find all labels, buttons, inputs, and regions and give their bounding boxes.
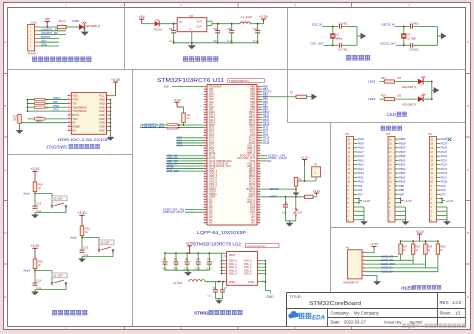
svg-text:Drawn By:: Drawn By:: [384, 320, 402, 325]
svg-text:JTDI: JTDI: [53, 101, 59, 104]
svg-text:CN1: CN1: [31, 21, 37, 25]
svg-text:+3.3V: +3.3V: [404, 199, 412, 203]
svg-text:NC: NC: [209, 221, 213, 224]
svg-text:P3: P3: [387, 132, 391, 136]
svg-text:OSC32_OUT: OSC32_OUT: [380, 42, 396, 46]
svg-text:LED2: LED2: [368, 97, 375, 101]
svg-text:C15: C15: [37, 203, 42, 206]
svg-text:10uH: 10uH: [246, 16, 252, 19]
svg-text:X2: X2: [407, 32, 411, 36]
svg-text:E: E: [467, 295, 469, 299]
svg-text:1.0.0: 1.0.0: [452, 300, 462, 305]
svg-text:LQFP-64_10X10X5P: LQFP-64_10X10X5P: [197, 230, 246, 235]
svg-text:Key1: Key1: [24, 191, 31, 195]
svg-text:PA15: PA15: [358, 158, 365, 162]
svg-text:PA14: PA14: [358, 163, 365, 167]
svg-text:PC11: PC11: [441, 175, 448, 179]
svg-text:PC12: PC12: [263, 142, 270, 145]
svg-text:IN: IN: [179, 20, 182, 24]
svg-text:C8: C8: [163, 257, 167, 261]
svg-text:+3.3V: +3.3V: [173, 98, 181, 102]
svg-text:Key2: Key2: [71, 235, 78, 239]
svg-text:PB9: PB9: [399, 184, 404, 188]
svg-text:VDDA: VDDA: [229, 281, 236, 284]
svg-text:+3.3V: +3.3V: [78, 211, 88, 215]
svg-text:+3.3V: +3.3V: [31, 167, 41, 171]
svg-text:TCK/SWCLK: TCK/SWCLK: [72, 110, 87, 113]
svg-text:STM32F103RCT6 U11: STM32F103RCT6 U11: [157, 78, 224, 84]
svg-text:+3.3V: +3.3V: [301, 155, 309, 159]
svg-text:1/1: 1/1: [455, 311, 461, 316]
svg-text:PB16: PB16: [399, 154, 406, 158]
svg-text:100: 100: [397, 77, 402, 80]
svg-text:PB14: PB14: [399, 163, 406, 167]
svg-text:PB10: PB10: [399, 180, 406, 184]
svg-text:+5V: +5V: [44, 17, 51, 21]
svg-text:C14: C14: [37, 280, 42, 283]
svg-text:C6: C6: [174, 257, 178, 261]
svg-text:OLED_DC: OLED_DC: [381, 258, 393, 262]
svg-text:Sheet:: Sheet:: [440, 311, 452, 316]
svg-text:R13: R13: [13, 117, 18, 119]
svg-text:JRST: JRST: [36, 120, 43, 123]
svg-text:PC3: PC3: [177, 144, 182, 147]
svg-text:JTMS: JTMS: [53, 105, 60, 108]
svg-text:K2-1187: K2-1187: [53, 197, 63, 201]
svg-text:+3.3V: +3.3V: [259, 15, 269, 19]
svg-text:OSC32_IN: OSC32_IN: [381, 23, 394, 27]
svg-text:L1: L1: [241, 15, 245, 19]
svg-text:C17 402: C17 402: [338, 48, 348, 51]
svg-text:PA9: PA9: [358, 184, 363, 188]
svg-text:+3.3V: +3.3V: [363, 199, 371, 203]
svg-text:LED-0805_R: LED-0805_R: [402, 104, 417, 107]
svg-text:PA17: PA17: [358, 150, 365, 154]
svg-text:C2: C2: [207, 257, 211, 261]
svg-text:Date:: Date:: [331, 320, 341, 325]
svg-text:C18 402: C18 402: [409, 22, 419, 25]
svg-text:H1: H1: [346, 246, 350, 250]
svg-text:PC12: PC12: [441, 171, 448, 175]
svg-text:LED: LED: [387, 112, 397, 117]
svg-text:PC19: PC19: [441, 141, 448, 145]
svg-text:OSC_IN: OSC_IN: [312, 23, 322, 27]
svg-text:PA20: PA20: [358, 137, 365, 141]
svg-text:PB19: PB19: [399, 141, 406, 145]
svg-text:B: B: [4, 104, 6, 108]
svg-text:PB20: PB20: [399, 137, 406, 141]
svg-text:8MHz: 8MHz: [336, 38, 343, 41]
svg-text:STM32F103RCT6-2: STM32F103RCT6-2: [247, 246, 267, 248]
svg-text:PB15: PB15: [399, 158, 406, 162]
svg-text:+3.3V: +3.3V: [415, 230, 424, 234]
svg-text:PC16: PC16: [441, 154, 448, 158]
svg-text:3: 3: [68, 98, 69, 100]
svg-text:100: 100: [397, 94, 402, 97]
svg-text:PWR: PWR: [73, 19, 80, 23]
svg-text:JTRST: JTRST: [53, 97, 61, 100]
svg-text:2022-03-17: 2022-03-17: [344, 320, 366, 325]
svg-text:PC9: PC9: [441, 184, 447, 188]
svg-text:PB8: PB8: [399, 188, 404, 192]
svg-text:REV:: REV:: [440, 300, 450, 305]
svg-text:X1: X1: [336, 32, 340, 36]
svg-text:VSSA: VSSA: [248, 281, 255, 284]
svg-text:NC: NC: [72, 122, 76, 125]
svg-text:PB13: PB13: [399, 167, 406, 171]
svg-text:PC8: PC8: [441, 188, 447, 192]
svg-text:RTCK: RTCK: [72, 114, 79, 117]
svg-text:PC20: PC20: [441, 137, 448, 141]
svg-text:GND: GND: [99, 126, 105, 129]
svg-text:A: A: [467, 40, 469, 44]
svg-text:STM32F103RCT6-1: STM32F103RCT6-1: [229, 81, 250, 83]
svg-text:My Company: My Company: [354, 311, 380, 316]
svg-text:PA8: PA8: [358, 188, 363, 192]
svg-text:GND: GND: [99, 114, 105, 117]
svg-text:PB12: PB12: [399, 171, 406, 175]
svg-text:GND: GND: [99, 106, 105, 109]
svg-text:19: 19: [68, 129, 70, 131]
svg-text:TITLE:: TITLE:: [290, 294, 302, 299]
svg-text:PA11: PA11: [358, 175, 365, 179]
svg-text:C16: C16: [84, 247, 89, 250]
svg-text:OSC_OUT: OSC_OUT: [311, 42, 324, 46]
svg-text:3V3: 3V3: [41, 39, 46, 43]
svg-text:A: A: [4, 40, 6, 44]
svg-text:K2-1187: K2-1187: [100, 241, 110, 245]
svg-text:E: E: [4, 295, 6, 299]
svg-text:C16 402: C16 402: [338, 22, 348, 25]
svg-text:C19 402: C19 402: [409, 48, 419, 51]
svg-text:TDI: TDI: [72, 102, 76, 105]
svg-text:GND: GND: [41, 43, 47, 47]
svg-text:BOOT0: BOOT0: [41, 35, 51, 39]
svg-text:A2541WR-7P: A2541WR-7P: [343, 282, 359, 285]
svg-text:PA7: PA7: [358, 192, 363, 196]
svg-text:9: 9: [68, 110, 69, 112]
svg-text:VDD_4: VDD_4: [229, 273, 238, 276]
svg-text:USART1_TX: USART1_TX: [41, 27, 58, 31]
svg-text:SPI1_SCK: SPI1_SCK: [167, 170, 179, 173]
svg-text:VBAT: VBAT: [229, 253, 236, 257]
svg-text:XH-6A: XH-6A: [28, 52, 37, 56]
svg-text:OLED_CS: OLED_CS: [381, 254, 393, 258]
svg-text:Key3: Key3: [24, 268, 31, 272]
svg-text:C3: C3: [196, 257, 200, 261]
svg-text:BOOT0: BOOT0: [270, 188, 279, 191]
svg-text:OUT: OUT: [197, 19, 203, 23]
svg-text:15: 15: [68, 121, 70, 123]
svg-text:EDA: EDA: [416, 323, 425, 328]
svg-text:PA16: PA16: [358, 154, 365, 158]
svg-text:GND: GND: [99, 122, 105, 125]
svg-text:TMS/SWDIO: TMS/SWDIO: [72, 106, 86, 109]
svg-text:Company:: Company:: [331, 311, 350, 316]
svg-text:+3.3VA: +3.3VA: [173, 281, 183, 285]
svg-text:GND: GND: [99, 102, 105, 105]
svg-text:PA10: PA10: [358, 180, 365, 184]
svg-text:VCC: VCC: [99, 95, 104, 98]
svg-text:RESET: RESET: [72, 126, 81, 129]
svg-text:VSS_4: VSS_4: [244, 273, 252, 276]
svg-text:P4: P4: [428, 132, 432, 136]
svg-text:PC13: PC13: [441, 167, 448, 171]
svg-text:GND: GND: [99, 129, 105, 132]
svg-text:OUT: OUT: [197, 24, 203, 28]
svg-text:OSC32_OUT: OSC32_OUT: [163, 210, 185, 214]
svg-text:OLED_D0: OLED_D0: [381, 270, 393, 274]
svg-text:11: 11: [68, 114, 70, 116]
svg-text:RST: RST: [298, 212, 303, 215]
svg-text:R23: R23: [381, 77, 386, 80]
svg-text:VDD: VDD: [72, 95, 77, 98]
svg-text:PC15: PC15: [441, 158, 448, 162]
svg-text:R29: R29: [381, 94, 386, 97]
svg-text:+3.3V: +3.3V: [111, 78, 121, 82]
svg-text:OLED: OLED: [401, 285, 413, 290]
svg-text:PC18: PC18: [441, 146, 448, 150]
svg-text:PB17: PB17: [399, 150, 406, 154]
svg-text:NC: NC: [72, 129, 76, 132]
svg-text:5: 5: [68, 102, 69, 104]
svg-text:PB18: PB18: [399, 146, 406, 150]
svg-text:HDR-IDC-2.54-2X10P: HDR-IDC-2.54-2X10P: [58, 137, 110, 142]
svg-text:USART1_RX: USART1_RX: [142, 125, 164, 129]
svg-text:PA19: PA19: [358, 141, 365, 145]
svg-text:GND: GND: [99, 110, 105, 113]
svg-text:P2: P2: [345, 132, 349, 136]
svg-text:STM32: STM32: [194, 311, 209, 316]
svg-text:GND: GND: [99, 99, 105, 102]
svg-text:GND: GND: [99, 118, 105, 121]
svg-text:0.1u: 0.1u: [282, 213, 287, 215]
svg-text:13: 13: [68, 117, 70, 119]
svg-text:R6: R6: [59, 19, 63, 23]
svg-text:LED-0805_R: LED-0805_R: [402, 86, 417, 89]
svg-text:G: G: [190, 28, 192, 31]
svg-text:+3.3V: +3.3V: [313, 189, 321, 193]
svg-text:PB7: PB7: [399, 192, 404, 196]
svg-text:LED-0805_R: LED-0805_R: [85, 24, 100, 28]
svg-text:TDO: TDO: [72, 118, 77, 121]
svg-text:GND: GND: [266, 295, 274, 299]
svg-text:32.768k: 32.768k: [407, 38, 417, 41]
svg-text:PC14: PC14: [441, 163, 448, 167]
svg-text:+3.3V: +3.3V: [446, 199, 454, 203]
svg-text:USART1_RX: USART1_RX: [41, 31, 58, 35]
svg-text:Xtal: Xtal: [163, 85, 169, 89]
svg-text:K2-1187: K2-1187: [53, 274, 63, 278]
svg-text:+3.3V: +3.3V: [31, 244, 41, 248]
svg-text:PA18: PA18: [358, 146, 365, 150]
svg-text:17: 17: [68, 125, 70, 127]
svg-text:1: 1: [68, 94, 69, 96]
svg-text:JTAG/SWD: JTAG/SWD: [46, 144, 67, 149]
svg-text:PC10: PC10: [441, 180, 448, 184]
svg-text:PD2: PD2: [267, 160, 272, 163]
svg-text:TRST: TRST: [72, 99, 79, 102]
svg-text:PC17: PC17: [441, 150, 448, 154]
svg-text:7: 7: [68, 106, 69, 108]
svg-text:B: B: [467, 104, 469, 108]
svg-text:LED1: LED1: [368, 80, 375, 84]
svg-text:+3.3V: +3.3V: [370, 242, 378, 246]
svg-text:OLED_RES: OLED_RES: [381, 262, 395, 266]
svg-text:PC7: PC7: [441, 192, 447, 196]
svg-text:PA13: PA13: [358, 167, 365, 171]
svg-text:SS210: SS210: [154, 28, 163, 32]
svg-text:EDA: EDA: [312, 314, 325, 321]
svg-text:C4: C4: [185, 257, 189, 261]
svg-text:STM32CoreBoard: STM32CoreBoard: [309, 301, 361, 307]
svg-text:STM32F103RCT6 U12: STM32F103RCT6 U12: [193, 242, 241, 248]
svg-text:PA12: PA12: [358, 171, 365, 175]
svg-text:OLED_D1: OLED_D1: [381, 266, 393, 270]
svg-text:+5V: +5V: [139, 15, 146, 19]
svg-text:PB11: PB11: [399, 175, 406, 179]
svg-text:JTCK: JTCK: [53, 109, 60, 112]
svg-text:NRST: NRST: [270, 196, 277, 199]
svg-text:NC: NC: [251, 221, 255, 224]
svg-text:PB2: PB2: [263, 96, 268, 99]
